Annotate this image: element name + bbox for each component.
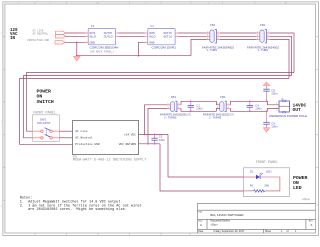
resistor R1: [244, 184, 270, 193]
svg-text:Protective GND: Protective GND: [75, 142, 100, 146]
wire AC LIVE loop across: [27, 73, 295, 132]
svg-text:k6jca: k6jca: [303, 197, 310, 201]
title block texts: [198, 210, 313, 233]
svg-text:LED: LED: [266, 170, 272, 174]
svg-text:100n: 100n: [271, 125, 278, 129]
wire F1 OUT LO to FB1: [178, 35, 209, 37]
svg-text:100n: 100n: [271, 92, 278, 96]
LED assembly box: [244, 168, 290, 197]
svg-text:are 2643102002 cores. Might b: are 2643102002 cores. Might be something…: [20, 207, 127, 212]
svg-text:30A, 14VDC SWITCHER: 30A, 14VDC SWITCHER: [210, 213, 244, 217]
svg-text:F1: F1: [151, 24, 155, 28]
svg-text:AC NEUTRAL: AC NEUTRAL: [33, 32, 49, 35]
filter F1: [145, 24, 178, 45]
border zone ticks bottom: [35, 233, 190, 236]
wire FB3 out jog bottom: [181, 108, 217, 111]
svg-text:R1: R1: [250, 184, 254, 188]
svg-text:VDC RETURN: VDC RETURN: [119, 143, 137, 146]
svg-text:2 - TURNS: 2 - TURNS: [164, 117, 177, 120]
wire FB1 to FB2 row1: [220, 32, 257, 34]
wire chassis rail to PE riser: [139, 55, 192, 57]
svg-text:ON: ON: [37, 94, 43, 100]
svg-text:1: 1: [207, 31, 208, 33]
ferrite bead FB1: [207, 23, 221, 43]
junction +14 riser: [144, 134, 146, 136]
svg-text:FB3: FB3: [171, 95, 177, 99]
svg-text:5: 5: [257, 38, 258, 40]
svg-text:A: A: [200, 223, 202, 227]
ferrite bead FB2: [257, 23, 270, 43]
switch pole 2: [33, 137, 41, 139]
svg-text:LED: LED: [293, 185, 302, 191]
wire switch pole2 to megawatt AC Neutral: [59, 137, 72, 139]
notes text: [20, 197, 142, 212]
wire jog into J1 pin2: [268, 108, 280, 111]
offpage connector arrow AC NEUTRAL: [56, 35, 66, 38]
filter F2: [85, 24, 118, 45]
junction chassis rail at F1 gnd drop: [138, 55, 140, 57]
svg-text:CORCOM 15VR1: CORCOM 15VR1: [152, 46, 177, 50]
wire PE riser up to FB1: [191, 40, 210, 56]
wire FB4 out jog bottom: [231, 108, 268, 111]
ferrite bead FB4: [217, 95, 231, 112]
svg-text:4: 4: [228, 107, 229, 109]
pin numbers FB4: [217, 103, 229, 109]
svg-text:3: 3: [168, 107, 169, 109]
junction C8 tap: [266, 100, 268, 102]
chassis arrow below C9: [263, 128, 270, 132]
pin numbers J1: [276, 103, 277, 112]
svg-text:IN LO: IN LO: [149, 35, 155, 38]
wire AC NEUTRAL arrow to F2: [66, 35, 89, 37]
wire F1 OUT HI to FB1: [178, 32, 209, 34]
svg-text:1: 1: [168, 103, 169, 105]
svg-text:FB4: FB4: [220, 95, 226, 99]
label POWER ON SWITCH: [37, 89, 54, 105]
svg-text:2: 2: [218, 31, 219, 33]
wire FB1 to FB2 row2: [220, 35, 257, 37]
svg-text:MEGA-WATT S-400-12 SWITCHING S: MEGA-WATT S-400-12 SWITCHING SUPPLY: [73, 159, 147, 163]
wire PE loop across: [20, 79, 290, 145]
svg-text:6: 6: [218, 38, 219, 40]
wire F1 gnd stub: [139, 42, 148, 55]
svg-text:1 - TURN: 1 - TURN: [258, 49, 269, 52]
switch linkage dashed: [46, 130, 48, 136]
svg-text:100n: 100n: [159, 138, 166, 142]
svg-text:FB1: FB1: [210, 23, 216, 27]
connector J1 anderson power pole: [276, 98, 289, 113]
capacitor C9: [263, 111, 278, 128]
wire jog into FB4 bottom: [217, 108, 220, 111]
wire AC LIVE arrow to F2: [66, 32, 89, 34]
diode D1 LED: [244, 170, 272, 180]
svg-text:4: 4: [178, 107, 179, 109]
ground chassis arrow: [74, 56, 81, 61]
svg-text:OUT LO: OUT LO: [104, 35, 113, 38]
svg-text:AC Neutral: AC Neutral: [75, 136, 93, 140]
svg-text:IN: IN: [10, 37, 16, 41]
svg-text:FRONT PANEL: FRONT PANEL: [256, 161, 278, 165]
svg-text:<Doc>: <Doc>: [211, 224, 219, 227]
svg-text:3: 3: [207, 35, 208, 37]
capacitor C5: [151, 134, 165, 145]
svg-text:2 - TURNS: 2 - TURNS: [209, 117, 222, 120]
pin numbers FB2: [257, 31, 269, 40]
wire FB3 out jog top: [181, 101, 217, 105]
wire PE loop right: [270, 40, 290, 79]
border zone ticks left: [3, 37, 5, 201]
offpage connector arrow PROTECTIVE GND: [55, 41, 65, 44]
wire return down to LED return: [160, 144, 244, 191]
svg-text:6: 6: [268, 38, 269, 40]
svg-text:2: 2: [178, 103, 179, 105]
pin numbers FB1: [207, 31, 219, 40]
junction chassis rail left: [76, 55, 78, 57]
svg-text:1: 1: [217, 103, 218, 105]
svg-text:Friday, September 29, 2017: Friday, September 29, 2017: [214, 230, 245, 233]
wire PE down to chassis rail: [76, 42, 78, 55]
svg-text:3: 3: [217, 107, 218, 109]
wire VDC RETURN from PS1: [139, 143, 161, 145]
wire AC NEUTRAL loop across: [24, 76, 292, 138]
svg-text:CORCOM 3EB1O4H: CORCOM 3EB1O4H: [90, 46, 119, 50]
svg-text:5: 5: [207, 38, 208, 40]
border zone ticks top: [35, 2, 286, 4]
border zone ticks right: [316, 37, 319, 206]
wire PROTECTIVE GND arrow to junction: [65, 41, 88, 43]
wire +14 riser to filter row: [145, 105, 171, 135]
offpage connector arrow AC LIVE: [56, 31, 66, 34]
capacitor C4: [247, 100, 262, 112]
svg-text:2: 2: [276, 110, 277, 112]
wire FB4 out jog top: [231, 101, 268, 105]
svg-text:1 - TURN: 1 - TURN: [207, 49, 218, 52]
wire FB1 to FB2 row3: [220, 39, 257, 41]
junction C9 tap: [266, 110, 268, 112]
svg-text:A: A: [311, 223, 313, 227]
svg-text:2: 2: [228, 103, 229, 105]
svg-text:F2: F2: [91, 24, 95, 28]
svg-text:+14 VDC: +14 VDC: [124, 133, 136, 136]
svg-text:GND: GND: [90, 41, 96, 44]
node 120 VAC IN label: [10, 29, 18, 41]
border zone digits: [1, 3, 287, 208]
svg-text:GND: GND: [149, 41, 155, 44]
wire jog into FB4 top: [217, 101, 220, 105]
svg-text:Sheet: Sheet: [265, 230, 271, 233]
svg-text:Document Number: Document Number: [211, 220, 231, 223]
junction PE at F2 gnd stub: [76, 41, 78, 43]
svg-text:OUT: OUT: [293, 107, 302, 113]
svg-text:AC Line: AC Line: [75, 129, 87, 133]
svg-text:FB2: FB2: [260, 23, 266, 27]
wire AC NEUTRAL loop right: [270, 36, 292, 75]
label POWER ON LED: [293, 175, 308, 191]
power supply PS1 MEGA-WATT: [73, 121, 139, 155]
wire AC LIVE loop right: [270, 33, 295, 73]
junction return riser: [147, 143, 149, 145]
svg-text:360: 360: [264, 184, 269, 188]
svg-text:3: 3: [257, 35, 258, 37]
svg-text:4: 4: [268, 35, 269, 37]
label 14VDC OUT: [293, 102, 307, 113]
pin numbers FB3: [168, 103, 180, 109]
svg-text:2: 2: [268, 31, 269, 33]
switch SW1: [33, 115, 60, 142]
wire F2 OUT LO to F1 IN LO: [119, 35, 145, 37]
wire +14 down to LED feed: [168, 134, 244, 177]
chassis arrow above C8: [263, 82, 270, 86]
wire +14VDC from PS1: [139, 133, 169, 135]
svg-text:Date:: Date:: [198, 230, 204, 233]
switch pole 1: [33, 130, 41, 132]
wire chassis rail F2 to F1: [77, 55, 139, 57]
svg-text:1: 1: [257, 31, 258, 33]
svg-text:100n: 100n: [196, 107, 203, 111]
wire F2 OUT HI to F1 IN HI: [119, 32, 145, 34]
svg-text:D1: D1: [250, 170, 254, 174]
svg-text:SW DPST: SW DPST: [37, 121, 51, 125]
wire return riser to filter row: [148, 108, 170, 143]
svg-text:1: 1: [276, 103, 277, 105]
svg-text:4: 4: [218, 35, 219, 37]
svg-text:OUT LO: OUT LO: [163, 35, 172, 38]
wire switch pole1 to megawatt AC Line: [59, 130, 72, 132]
title block frame: [198, 203, 316, 233]
capacitor C8: [263, 86, 278, 102]
svg-text:SWITCH: SWITCH: [37, 99, 54, 105]
svg-text:IN LO: IN LO: [90, 35, 96, 38]
svg-text:100n: 100n: [255, 107, 262, 111]
svg-text:(ON BACK PANEL): (ON BACK PANEL): [90, 49, 115, 53]
wire jog into J1 pin1: [268, 101, 280, 105]
svg-text:ANDERSON POWER POLE: ANDERSON POWER POLE: [269, 114, 307, 118]
ferrite bead FB3: [167, 95, 181, 112]
capacitor C1: [188, 100, 203, 112]
svg-text:PROTECTIVE GND: PROTECTIVE GND: [27, 39, 49, 42]
wire LED cathode loop to R1: [260, 177, 280, 191]
